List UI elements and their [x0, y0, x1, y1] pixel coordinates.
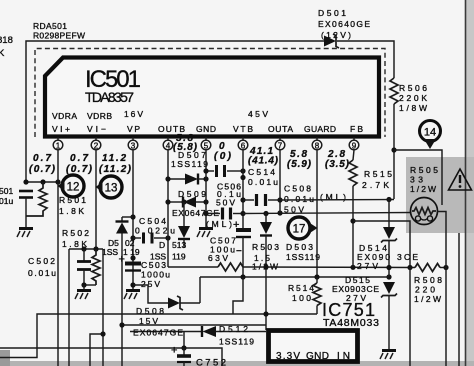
svg-text:8: 8: [315, 142, 320, 151]
wire feedback right branch down: [102, 249, 104, 366]
node R503 right: [263, 264, 268, 269]
node D509 right: [203, 199, 208, 204]
resistor R501 zigzag: [26, 182, 47, 216]
op-amp IC501 body box: [45, 58, 379, 137]
warning triangle: [449, 169, 472, 190]
test point balloon 14: [420, 121, 441, 150]
diode D508 zener pointing right: [168, 296, 200, 310]
svg-text:0.01u: 0.01u: [248, 177, 278, 187]
capacitor C752 electrolytic: [177, 348, 191, 366]
svg-text:(11.2): (11.2): [99, 164, 132, 175]
diode D503 pointing down: [260, 213, 272, 330]
wire R506 down to junction: [393, 104, 395, 199]
svg-text:513: 513: [172, 240, 186, 250]
svg-text:(0): (0): [214, 151, 232, 162]
node D515 top: [386, 274, 391, 279]
capacitor C508 between pin6 pin7: [243, 194, 280, 206]
svg-text:+: +: [171, 345, 177, 357]
node W1 x266: [263, 311, 268, 316]
diode D507 pointing right: [168, 174, 206, 185]
node at pin1 line: [55, 179, 60, 184]
svg-text:VP: VP: [127, 124, 140, 134]
svg-text:220: 220: [415, 285, 435, 295]
svg-text:501: 501: [0, 186, 13, 196]
node C752 top: [181, 345, 186, 350]
node D502 jog: [130, 214, 135, 219]
pin 5: [201, 137, 211, 151]
wire W2 y325: [122, 324, 266, 326]
wire top rail from C501 node over IC to R506: [26, 41, 324, 182]
wire x459 from grey box down: [458, 233, 460, 366]
node C503 bottom: [130, 282, 135, 287]
node D507 left: [165, 176, 170, 181]
capacitor C501 plates: [19, 191, 33, 198]
node C514 right: [240, 168, 245, 173]
svg-text:13: 13: [105, 183, 118, 195]
posistor R505 circle with resistor: [411, 198, 438, 225]
node R514 top: [314, 274, 319, 279]
svg-text:100: 100: [292, 293, 311, 303]
wire R502 C502 bottoms: [84, 284, 96, 286]
svg-text:(5.9): (5.9): [287, 159, 312, 170]
svg-text:1/2W: 1/2W: [414, 294, 441, 304]
svg-text:TDA8357: TDA8357: [85, 89, 134, 105]
svg-text:VTB: VTB: [233, 124, 253, 134]
node C504 left: [130, 235, 135, 240]
svg-text:1 19: 1 19: [123, 247, 140, 257]
svg-text:K: K: [0, 48, 5, 59]
capacitor C504: [133, 233, 168, 244]
svg-text:(41.4): (41.4): [248, 156, 279, 167]
capacitor C506 on wire y213: [206, 208, 243, 220]
svg-text:2: 2: [94, 142, 99, 151]
wire y277 rail: [200, 276, 389, 278]
svg-text:GND: GND: [196, 124, 216, 134]
pin 8: [312, 137, 322, 151]
svg-text:818: 818: [0, 35, 13, 46]
pin5 column wire: [205, 150, 207, 228]
wire x410 below R508: [409, 268, 411, 366]
long wire y213 to degauss: [243, 213, 411, 214]
node D514 at wire y267: [386, 265, 391, 270]
diode D514 zener pointing down: [381, 200, 397, 278]
svg-text:VDRA: VDRA: [52, 111, 77, 121]
pin4 column wire: [167, 150, 169, 267]
wire y200 from C508 to R506 column: [280, 199, 394, 202]
svg-text:GUARD: GUARD: [304, 124, 336, 134]
pin2 column wire: [95, 150, 97, 249]
pin9 column wire: [353, 150, 354, 160]
grey smudge bottom-left corner: [0, 350, 10, 366]
node x103 y334: [100, 331, 105, 336]
diode D502 pointing up: [116, 217, 129, 366]
diode D501 zener on top rail: [324, 34, 339, 48]
pin 3: [128, 137, 138, 151]
svg-text:IN: IN: [337, 351, 350, 362]
diode D509 pointing left: [168, 197, 206, 208]
resistor R506 zigzag: [390, 78, 398, 104]
svg-text:119: 119: [172, 252, 186, 262]
svg-text:1/2W: 1/2W: [410, 184, 436, 194]
wire y221 branch: [353, 221, 410, 268]
svg-text:VI+: VI+: [52, 124, 70, 134]
pin1 column wire: [57, 150, 59, 366]
node R508 right: [443, 265, 448, 270]
svg-text:0.01u: 0.01u: [28, 268, 56, 278]
wire branch to degauss circuit: [394, 150, 442, 205]
node C506 left: [203, 211, 208, 216]
svg-text:1.8K: 1.8K: [59, 206, 84, 216]
svg-text:45V: 45V: [248, 109, 268, 119]
node R502 top: [93, 246, 98, 251]
svg-text:27V: 27V: [357, 261, 378, 271]
node R515 bottom: [350, 265, 355, 270]
test point balloon 12: [58, 175, 85, 197]
grey scan strip right edge: [466, 0, 474, 366]
diode D513 pointing down: [178, 202, 190, 248]
svg-text:50V: 50V: [216, 198, 235, 208]
svg-text:1: 1: [56, 142, 61, 151]
svg-text:6: 6: [241, 142, 246, 151]
svg-text:14: 14: [424, 127, 436, 139]
pin 6: [238, 137, 248, 151]
svg-text:TA48M033: TA48M033: [323, 317, 379, 329]
wire feedback left branch down: [68, 249, 70, 366]
node junction R506 branch: [391, 147, 396, 152]
svg-text:1000u: 1000u: [141, 270, 170, 280]
wire 15V rail W1: [0, 314, 317, 358]
svg-text:16V: 16V: [124, 109, 143, 119]
svg-text:12: 12: [67, 182, 80, 194]
svg-text:63V: 63V: [208, 253, 228, 263]
svg-text:−: −: [236, 246, 242, 257]
R515 wire down: [352, 186, 354, 267]
wire W3 ground rail y348: [0, 348, 222, 366]
svg-text:FB: FB: [350, 124, 363, 134]
test point balloon 13: [96, 176, 123, 198]
pin 1: [53, 137, 63, 151]
node C504 right at pin4: [165, 235, 170, 240]
pin 2: [91, 137, 101, 151]
svg-text:1SS119: 1SS119: [219, 337, 254, 347]
node pin6 y200: [240, 197, 245, 202]
svg-text:3: 3: [131, 142, 136, 151]
svg-text:VDRB: VDRB: [87, 111, 112, 121]
diode D515 zener pointing down: [381, 282, 397, 350]
test point balloon 17: [288, 217, 318, 239]
svg-text:17: 17: [293, 224, 306, 236]
pin 9: [349, 137, 359, 151]
node pin6 y213: [240, 211, 245, 216]
svg-text:1SS: 1SS: [102, 247, 118, 257]
border line right edge: [465, 0, 467, 366]
svg-text:+: +: [119, 254, 125, 266]
node R515 y221: [350, 218, 355, 223]
svg-text:R0298PEFW: R0298PEFW: [33, 31, 85, 41]
node D503 top: [263, 211, 268, 216]
pin7 column wire: [279, 150, 281, 213]
svg-text:1SS119: 1SS119: [286, 252, 320, 262]
wire branch D512 to C752: [183, 332, 185, 349]
feedback wire y249: [69, 248, 103, 250]
staircase wire down from C507: [233, 277, 243, 314]
svg-text:GND: GND: [306, 351, 329, 362]
pin 7: [275, 137, 285, 151]
node D514 top: [386, 197, 391, 202]
wire stub x90: [90, 334, 103, 366]
svg-text:(0.7): (0.7): [66, 164, 93, 175]
node C507 staircase top: [240, 274, 245, 279]
svg-text:1SS: 1SS: [150, 252, 166, 262]
node pin7 bottom: [277, 210, 282, 215]
R508 zigzag on wire y267: [415, 264, 440, 272]
resistor R514 zigzag: [313, 277, 321, 314]
svg-text:01u: 01u: [0, 196, 13, 206]
svg-text:OUTA: OUTA: [268, 124, 293, 134]
node C503 top: [130, 255, 135, 260]
ground under C502: [75, 285, 91, 299]
svg-text:1/8W: 1/8W: [399, 103, 427, 113]
wire jog to D502: [122, 216, 133, 218]
svg-text:RDA501: RDA501: [33, 21, 67, 31]
capacitor C507 electrolytic: [236, 230, 251, 277]
ground pin5: [197, 229, 213, 238]
wire posistor right to down: [438, 212, 447, 366]
svg-text:4: 4: [166, 142, 171, 151]
wire input node to pin1: [26, 181, 58, 183]
svg-text:(0.7): (0.7): [29, 164, 56, 175]
svg-text:EX0647GE: EX0647GE: [133, 328, 183, 338]
svg-text:1SS119: 1SS119: [171, 159, 208, 169]
grey scan band bottom edge: [0, 361, 474, 366]
svg-text:7: 7: [278, 142, 283, 151]
grey highlight box around R505: [406, 157, 474, 233]
svg-text:3.3V: 3.3V: [276, 351, 300, 362]
resistor R502 zigzag: [92, 249, 100, 285]
node at R501 top: [40, 179, 45, 184]
svg-text:9: 9: [352, 142, 357, 151]
wire C501 bottom to ground: [25, 198, 27, 229]
ground under C503: [124, 291, 140, 300]
D512 wire with EX0647GE label: [130, 331, 202, 333]
svg-text:3CE: 3CE: [397, 252, 418, 262]
svg-text:220K: 220K: [399, 93, 427, 103]
dashed module boundary RDA501: [35, 49, 385, 138]
node C514 left: [203, 168, 208, 173]
svg-text:VI−: VI−: [87, 124, 106, 134]
regulator box 3.3V GND IN: [269, 331, 358, 362]
resistor R515 zigzag: [349, 160, 357, 186]
node W2 left D502 column: [119, 322, 124, 327]
wire C503 to D508: [133, 285, 168, 303]
node C502 bottom: [81, 282, 86, 287]
wire D508 up to rail y277: [199, 277, 201, 303]
node pin6 y177: [240, 175, 245, 180]
svg-text:D: D: [159, 240, 165, 250]
capacitor C514 wire: [206, 165, 243, 177]
node pin2 bottom: [95, 248, 97, 250]
svg-text:0.7: 0.7: [70, 153, 88, 164]
diode D512 pointing left: [202, 326, 266, 337]
svg-text:0.7: 0.7: [33, 153, 51, 164]
pin 4: [163, 137, 173, 151]
pin6 column wire: [242, 150, 244, 228]
pin8 column wire GUARD: [316, 150, 318, 277]
wire top rail right of D501: [337, 41, 394, 78]
node pin7 C508: [277, 197, 282, 202]
svg-text:2.7K: 2.7K: [362, 180, 389, 190]
ground under C501: [17, 229, 33, 238]
node D513 top: [181, 199, 186, 204]
node at x26 y182: [23, 179, 28, 184]
svg-text:EX0640GE: EX0640GE: [318, 19, 370, 29]
pin3 column wire: [132, 150, 134, 290]
ground under D515: [380, 351, 396, 360]
capacitor C503 electrolytic: [125, 264, 141, 271]
wire R508 right: [440, 267, 446, 269]
node C502 top: [81, 246, 86, 251]
svg-text:25V: 25V: [141, 279, 160, 289]
node R508 left: [407, 265, 412, 270]
node D507 right: [203, 176, 208, 181]
node D509 left: [165, 199, 170, 204]
long wire y267 with R503 zigzag: [168, 263, 415, 271]
capacitor C502 plates: [77, 249, 91, 285]
svg-text:(3.5): (3.5): [325, 159, 350, 170]
svg-text:0.01u: 0.01u: [284, 194, 314, 204]
